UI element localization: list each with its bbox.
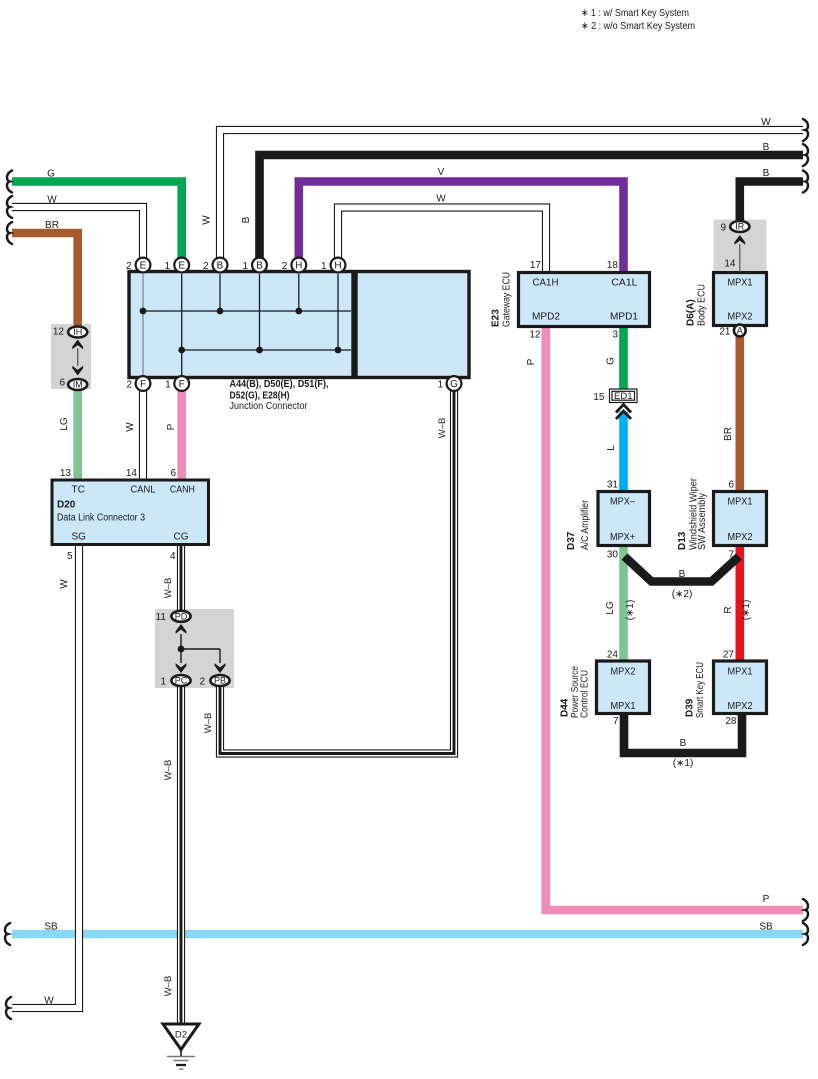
svg-text:W: W <box>202 215 213 225</box>
svg-text:W: W <box>761 117 771 128</box>
svg-text:30: 30 <box>607 550 619 561</box>
svg-text:BR: BR <box>45 220 59 231</box>
svg-text:4: 4 <box>170 551 176 562</box>
svg-text:E: E <box>140 261 147 272</box>
svg-text:17: 17 <box>530 260 542 271</box>
svg-text:H: H <box>334 261 341 272</box>
svg-text:1: 1 <box>321 261 327 272</box>
svg-text:18: 18 <box>607 260 619 271</box>
svg-text:D2: D2 <box>175 1030 187 1041</box>
svg-text:R: R <box>723 606 734 613</box>
svg-text:CANH: CANH <box>170 485 195 496</box>
svg-text:IR: IR <box>735 222 745 232</box>
svg-text:SG: SG <box>71 532 86 543</box>
svg-text:IH: IH <box>73 327 82 337</box>
svg-text:27: 27 <box>723 650 735 661</box>
svg-text:1: 1 <box>160 677 166 688</box>
svg-text:1: 1 <box>165 380 171 391</box>
svg-text:D20: D20 <box>57 499 76 510</box>
svg-text:W–B: W–B <box>163 578 174 599</box>
svg-text:MPX1: MPX1 <box>728 667 753 678</box>
svg-text:2: 2 <box>126 261 132 272</box>
svg-text:CANL: CANL <box>131 485 156 496</box>
svg-text:2: 2 <box>203 261 209 272</box>
svg-text:W–B: W–B <box>163 976 174 997</box>
svg-text:CA1H: CA1H <box>533 277 559 288</box>
svg-text:MPX2: MPX2 <box>728 312 753 323</box>
svg-text:MPX2: MPX2 <box>728 532 753 543</box>
svg-text:E23: E23 <box>491 309 502 327</box>
svg-text:Control ECU: Control ECU <box>580 670 591 718</box>
svg-text:∗ 1 : w/ Smart Key System: ∗ 1 : w/ Smart Key System <box>581 7 689 19</box>
svg-text:W: W <box>59 579 70 589</box>
svg-text:P: P <box>526 358 537 365</box>
svg-text:IM: IM <box>73 380 83 390</box>
svg-text:W–B: W–B <box>163 760 174 781</box>
svg-text:3: 3 <box>612 330 618 341</box>
svg-text:Junction Connector: Junction Connector <box>230 401 309 412</box>
svg-text:B: B <box>680 738 687 749</box>
svg-text:MPX2: MPX2 <box>611 667 636 678</box>
svg-text:D37: D37 <box>566 531 577 550</box>
svg-text:MPD2: MPD2 <box>532 312 560 323</box>
svg-text:MPX–: MPX– <box>610 497 635 508</box>
svg-text:D44: D44 <box>560 698 571 717</box>
svg-text:(∗2): (∗2) <box>672 589 693 600</box>
svg-text:MPX2: MPX2 <box>728 701 753 712</box>
svg-text:B: B <box>241 216 252 223</box>
svg-text:LG: LG <box>59 417 70 431</box>
svg-text:13: 13 <box>60 468 72 479</box>
svg-text:ED1: ED1 <box>614 391 633 402</box>
svg-text:1: 1 <box>165 261 171 272</box>
svg-text:MPX1: MPX1 <box>728 277 753 288</box>
svg-text:W: W <box>436 194 446 205</box>
svg-text:9: 9 <box>720 223 726 234</box>
svg-text:6: 6 <box>728 480 734 491</box>
svg-text:14: 14 <box>126 468 138 479</box>
svg-text:A/C Amplifier: A/C Amplifier <box>580 499 591 550</box>
svg-text:15: 15 <box>593 392 605 403</box>
svg-text:B: B <box>679 569 686 580</box>
svg-text:24: 24 <box>607 650 619 661</box>
svg-text:D52(G), E28(H): D52(G), E28(H) <box>230 391 290 402</box>
svg-text:6: 6 <box>170 468 176 479</box>
svg-text:Gateway ECU: Gateway ECU <box>501 272 512 327</box>
svg-text:F: F <box>179 379 185 390</box>
svg-text:B: B <box>763 168 770 179</box>
svg-text:P: P <box>763 894 770 905</box>
svg-text:CA1L: CA1L <box>611 277 637 288</box>
svg-text:L: L <box>606 445 617 451</box>
svg-text:PB: PB <box>214 676 226 686</box>
svg-text:MPX1: MPX1 <box>728 497 753 508</box>
svg-text:H: H <box>295 261 302 272</box>
svg-text:A: A <box>737 326 743 336</box>
svg-text:14: 14 <box>724 259 736 270</box>
svg-text:21: 21 <box>719 327 731 338</box>
svg-text:6: 6 <box>59 378 65 389</box>
svg-text:B: B <box>763 142 770 153</box>
svg-text:CG: CG <box>174 532 189 543</box>
svg-text:B: B <box>217 261 224 272</box>
svg-text:PC: PC <box>175 676 188 686</box>
svg-text:G: G <box>606 357 617 365</box>
svg-text:12: 12 <box>53 327 65 338</box>
svg-text:BR: BR <box>723 427 734 441</box>
svg-text:5: 5 <box>67 551 73 562</box>
svg-text:P: P <box>166 423 177 430</box>
svg-text:F: F <box>140 379 146 390</box>
svg-text:TC: TC <box>72 485 85 496</box>
svg-text:SB: SB <box>759 922 773 933</box>
svg-text:D13: D13 <box>677 531 688 550</box>
svg-text:W: W <box>125 422 136 432</box>
svg-text:E: E <box>178 261 185 272</box>
svg-text:(∗1): (∗1) <box>673 758 694 769</box>
svg-text:1: 1 <box>242 261 248 272</box>
svg-text:D39: D39 <box>685 698 696 717</box>
svg-text:2: 2 <box>199 677 205 688</box>
svg-text:(∗1): (∗1) <box>625 600 636 621</box>
svg-text:7: 7 <box>728 550 734 561</box>
svg-text:LG: LG <box>605 601 616 615</box>
svg-text:W–B: W–B <box>203 713 214 734</box>
svg-text:D6(A): D6(A) <box>686 299 697 326</box>
svg-text:31: 31 <box>607 480 619 491</box>
svg-text:7: 7 <box>613 716 619 727</box>
svg-text:MPX1: MPX1 <box>611 701 636 712</box>
svg-text:W–B: W–B <box>437 418 448 439</box>
svg-text:SW Assembly: SW Assembly <box>697 493 708 550</box>
svg-text:W: W <box>47 195 57 206</box>
svg-text:G: G <box>47 169 55 180</box>
svg-text:MPX+: MPX+ <box>610 532 635 543</box>
svg-text:PD: PD <box>175 612 188 622</box>
svg-text:B: B <box>256 261 263 272</box>
svg-text:2: 2 <box>126 380 132 391</box>
svg-text:Smart Key ECU: Smart Key ECU <box>695 662 706 718</box>
svg-text:28: 28 <box>725 716 737 727</box>
svg-text:2: 2 <box>282 261 288 272</box>
svg-text:∗ 2 : w/o Smart Key System: ∗ 2 : w/o Smart Key System <box>581 20 695 32</box>
svg-text:A44(B), D50(E), D51(F),: A44(B), D50(E), D51(F), <box>230 379 329 390</box>
svg-text:G: G <box>450 379 458 390</box>
svg-text:SB: SB <box>44 922 58 933</box>
svg-text:W: W <box>44 996 54 1007</box>
svg-text:Body ECU: Body ECU <box>696 284 707 326</box>
svg-text:Data Link Connector 3: Data Link Connector 3 <box>57 512 145 523</box>
svg-text:(∗1): (∗1) <box>741 600 752 621</box>
svg-text:MPD1: MPD1 <box>610 312 638 323</box>
svg-text:12: 12 <box>529 330 541 341</box>
svg-text:11: 11 <box>156 612 167 623</box>
svg-text:1: 1 <box>437 380 443 391</box>
svg-text:V: V <box>438 167 445 178</box>
